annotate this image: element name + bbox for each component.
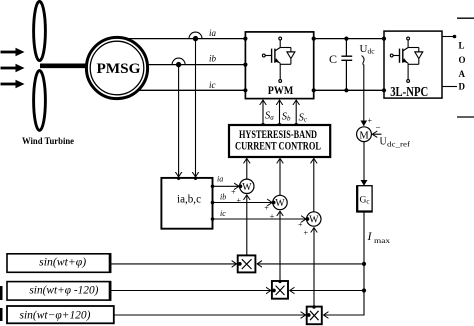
gate signal Sc xyxy=(295,100,297,126)
svg-text:A: A xyxy=(459,69,466,79)
svg-text:W: W xyxy=(309,215,319,226)
svg-text:W: W xyxy=(242,182,252,193)
wire Udc ref into M xyxy=(373,133,382,135)
wire multiplier a to summer a xyxy=(246,195,248,256)
wire M to Gc xyxy=(363,142,365,186)
wire sensor a to iabc block xyxy=(195,39,197,177)
controller block Gc xyxy=(357,186,372,212)
svg-text:ia,b,c: ia,b,c xyxy=(177,194,201,206)
svg-text:+: + xyxy=(231,188,236,197)
svg-text:ia: ia xyxy=(209,28,217,38)
svg-text:+: + xyxy=(304,229,309,238)
summer S3 (phase c) xyxy=(306,212,321,226)
wire sin2 to multiplier b xyxy=(111,290,271,292)
node Sc xyxy=(294,123,298,127)
wire iabc to summer a xyxy=(213,185,240,187)
generator PMSG xyxy=(86,37,147,98)
wind arrow 2 xyxy=(1,64,25,72)
wire sin1 to multiplier a xyxy=(111,263,237,265)
wire Udc sense to summer xyxy=(363,65,365,126)
svg-text:−: − xyxy=(376,123,381,133)
wind arrow 1 xyxy=(1,48,25,56)
node PWM in b xyxy=(243,63,247,67)
wire Imax to multiplier b xyxy=(290,290,364,292)
svg-text:+: + xyxy=(264,204,269,213)
wire dc bus bottom xyxy=(314,89,384,91)
converter block 3L-NPC xyxy=(384,31,442,100)
node PWM out + xyxy=(312,37,316,41)
shaft xyxy=(40,64,90,69)
svg-text:sin(wt+φ -120): sin(wt+φ -120) xyxy=(29,285,98,297)
node Imax row2 xyxy=(362,288,366,292)
converter block PWM xyxy=(245,32,313,99)
multiplier X2 xyxy=(272,280,288,299)
multiplier X3 xyxy=(307,305,322,324)
node cap top xyxy=(344,37,348,41)
capacitor C xyxy=(341,39,352,91)
gate signal Sb xyxy=(279,100,281,126)
block ia,b,c (current measurement) xyxy=(161,178,212,229)
wire ic (PMSG to PWM) xyxy=(120,89,245,91)
Udc sense hook xyxy=(362,56,365,66)
svg-text:D: D xyxy=(459,82,466,92)
node Sa xyxy=(261,123,265,127)
wire multiplier c to summer c xyxy=(313,228,315,307)
node load top xyxy=(453,35,457,39)
node PWM in a xyxy=(243,37,247,41)
node iabc top b xyxy=(177,177,180,180)
svg-text:L: L xyxy=(459,41,465,51)
svg-text:ic: ic xyxy=(220,209,226,218)
wire summer c to controller xyxy=(313,158,315,211)
node iabc out 1 xyxy=(211,185,215,189)
turbine blade upper xyxy=(34,1,46,60)
current sensor on phase b xyxy=(172,58,185,67)
wire sin3 to multiplier c xyxy=(114,314,306,316)
node Sb xyxy=(277,123,281,127)
node NPC in + xyxy=(382,37,386,41)
node PWM out - xyxy=(312,88,316,92)
svg-text:Gc: Gc xyxy=(360,196,370,206)
reference block sin(wt+phi-120) xyxy=(7,282,111,301)
wire NPC to load bottom xyxy=(442,86,457,88)
load box (clipped) xyxy=(457,18,474,117)
wire ia (PMSG to PWM) xyxy=(120,38,245,40)
node PWM in c xyxy=(243,88,247,92)
wire multiplier b to summer b xyxy=(279,211,281,281)
wind arrow 3 xyxy=(1,80,25,88)
svg-text:Wind Turbine: Wind Turbine xyxy=(22,136,74,146)
gate signal Sa xyxy=(262,100,264,126)
node iabc out 3 xyxy=(211,217,215,221)
svg-text:O: O xyxy=(459,55,466,65)
multiplier X1 xyxy=(238,255,256,272)
node NPC in - xyxy=(382,88,386,92)
svg-text:ia: ia xyxy=(217,175,223,184)
reference block sin(wt+phi) xyxy=(7,254,111,273)
wire summer b to controller xyxy=(279,158,281,195)
svg-text:ib: ib xyxy=(220,193,226,202)
summer S2 (phase b) xyxy=(272,195,287,209)
wire ib (PMSG to PWM) xyxy=(120,64,245,66)
svg-text:+: + xyxy=(270,212,275,221)
wire iabc to summer b xyxy=(213,202,273,204)
svg-text:W: W xyxy=(275,198,285,209)
svg-text:sin(wt+φ): sin(wt+φ) xyxy=(39,257,86,269)
node iabc out 2 xyxy=(211,201,215,205)
controller block hysteresis-band xyxy=(229,125,330,157)
turbine blade lower xyxy=(34,71,46,131)
IGBT symbol inside 3L-NPC xyxy=(390,37,423,82)
svg-text:max: max xyxy=(374,236,390,245)
svg-text:PMSG: PMSG xyxy=(97,61,141,77)
node Imax row1 xyxy=(362,262,366,266)
current sensor on phase a xyxy=(189,32,202,41)
wire dc bus top xyxy=(314,38,384,40)
edge artifact marks xyxy=(0,286,3,300)
svg-text:3L-NPC: 3L-NPC xyxy=(390,85,428,100)
node iabc top a xyxy=(194,177,197,180)
wire sensor b to iabc block xyxy=(178,65,180,177)
wire Gc to multipliers (Imax rail) xyxy=(324,212,365,315)
summer M (dc voltage) xyxy=(357,127,372,142)
svg-text:ib: ib xyxy=(209,54,217,64)
svg-text:+: + xyxy=(298,220,303,229)
svg-text:M: M xyxy=(359,130,369,141)
node cap bottom xyxy=(344,88,348,92)
IGBT symbol inside PWM xyxy=(262,37,295,82)
svg-text:+: + xyxy=(237,196,242,205)
svg-text:CURRENT CONTROL: CURRENT CONTROL xyxy=(235,138,321,152)
wire summer a to controller xyxy=(246,158,248,179)
svg-text:dc_ref: dc_ref xyxy=(387,141,411,149)
wire NPC to load top xyxy=(442,36,456,38)
summer S1 (phase a) xyxy=(239,179,255,193)
svg-text:PWM: PWM xyxy=(268,85,294,97)
svg-text:sin(wt−φ+120): sin(wt−φ+120) xyxy=(20,310,91,322)
wire iabc to summer c xyxy=(213,218,307,220)
wire Imax to multiplier a xyxy=(257,263,364,265)
reference block sin(wt-phi+120) xyxy=(7,306,114,323)
svg-text:C: C xyxy=(329,52,337,66)
svg-text:ic: ic xyxy=(209,80,216,90)
svg-text:+: + xyxy=(368,116,373,125)
